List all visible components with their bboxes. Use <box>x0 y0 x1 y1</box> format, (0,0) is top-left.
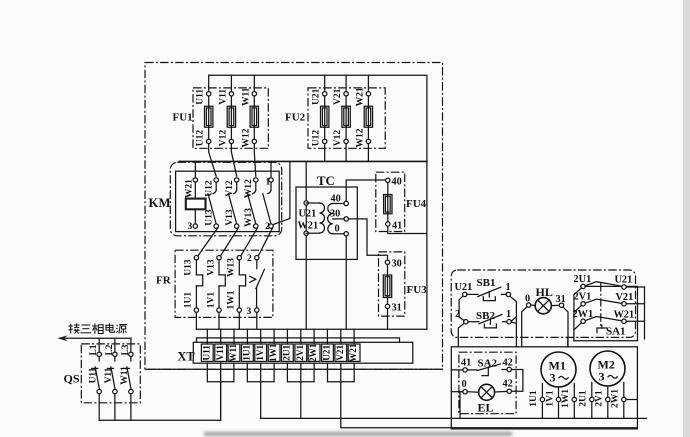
svg-text:3: 3 <box>599 370 605 384</box>
svg-text:0: 0 <box>462 379 467 390</box>
svg-text:EL: EL <box>478 401 494 415</box>
svg-text:W13: W13 <box>244 208 254 227</box>
svg-text:40: 40 <box>331 194 341 205</box>
svg-text:2V1: 2V1 <box>574 292 592 303</box>
svg-text:2U1: 2U1 <box>282 344 292 360</box>
svg-text:V13: V13 <box>206 259 216 276</box>
svg-text:SB2: SB2 <box>476 310 495 322</box>
svg-text:41: 41 <box>461 358 471 369</box>
svg-text:W12: W12 <box>355 128 365 147</box>
svg-text:2W1: 2W1 <box>573 309 594 320</box>
svg-text:U21: U21 <box>299 209 317 220</box>
svg-text:L1: L1 <box>89 344 99 355</box>
svg-text:L2: L2 <box>105 344 115 355</box>
svg-text:30: 30 <box>330 209 340 220</box>
svg-text:SB1: SB1 <box>477 277 496 289</box>
svg-text:V12: V12 <box>218 130 228 147</box>
svg-text:1U1: 1U1 <box>184 292 194 309</box>
svg-text:SA1: SA1 <box>606 326 626 338</box>
svg-text:W13: W13 <box>227 258 237 277</box>
svg-text:1W1: 1W1 <box>268 343 278 362</box>
svg-text:0: 0 <box>525 294 530 305</box>
svg-text:V11: V11 <box>218 89 228 105</box>
svg-text:1W1: 1W1 <box>561 389 571 408</box>
svg-text:U11: U11 <box>201 345 211 361</box>
svg-text:W12: W12 <box>244 179 254 198</box>
svg-text:U11: U11 <box>88 367 98 383</box>
svg-text:3: 3 <box>247 307 252 317</box>
svg-text:W21: W21 <box>355 87 365 106</box>
svg-text:FU1: FU1 <box>173 112 193 124</box>
svg-text:V21: V21 <box>335 344 345 360</box>
svg-text:TC: TC <box>317 174 335 188</box>
svg-text:U21: U21 <box>615 275 633 286</box>
svg-text:U13: U13 <box>184 259 194 276</box>
svg-text:2W1: 2W1 <box>308 343 318 362</box>
svg-text:W12: W12 <box>241 128 251 147</box>
svg-text:42: 42 <box>503 379 513 390</box>
svg-text:FU2: FU2 <box>285 112 306 124</box>
svg-text:V11: V11 <box>104 367 114 383</box>
svg-text:U12: U12 <box>312 130 322 147</box>
svg-text:31: 31 <box>392 303 402 314</box>
svg-text:W21: W21 <box>184 179 194 198</box>
svg-text:V21: V21 <box>616 292 634 303</box>
svg-text:W21: W21 <box>298 221 319 232</box>
svg-text:V13: V13 <box>225 209 235 226</box>
svg-text:42: 42 <box>503 358 513 369</box>
svg-text:V21: V21 <box>333 88 343 105</box>
svg-text:W11: W11 <box>120 366 130 385</box>
svg-text:FU3: FU3 <box>407 284 428 296</box>
svg-text:W21: W21 <box>348 343 358 362</box>
svg-text:U12: U12 <box>204 180 214 197</box>
svg-text:W11: W11 <box>228 343 238 361</box>
svg-text:2V1: 2V1 <box>595 390 605 407</box>
svg-text:U12: U12 <box>196 130 206 147</box>
svg-text:W11: W11 <box>241 87 251 106</box>
svg-text:V12: V12 <box>333 130 343 147</box>
svg-text:HL: HL <box>536 285 553 299</box>
svg-text:U21: U21 <box>455 282 473 293</box>
svg-text:1V1: 1V1 <box>206 292 216 309</box>
svg-text:U13: U13 <box>204 209 214 226</box>
svg-text:KM: KM <box>149 196 171 210</box>
svg-text:2V1: 2V1 <box>295 344 305 360</box>
svg-text:2U1: 2U1 <box>574 274 592 285</box>
svg-text:XT: XT <box>178 350 196 364</box>
svg-text:1: 1 <box>506 309 511 320</box>
svg-text:L3: L3 <box>121 344 131 355</box>
svg-text:1U1: 1U1 <box>242 344 252 360</box>
svg-text:30: 30 <box>392 259 402 270</box>
svg-text:1V1: 1V1 <box>255 344 265 360</box>
svg-text:3: 3 <box>550 371 556 385</box>
svg-text:2U1: 2U1 <box>579 390 589 407</box>
svg-text:V11: V11 <box>215 345 225 361</box>
svg-text:QS: QS <box>64 372 80 386</box>
svg-text:FU4: FU4 <box>406 198 427 210</box>
svg-text:U21: U21 <box>312 88 322 105</box>
svg-text:1V1: 1V1 <box>545 390 555 407</box>
svg-text:3: 3 <box>188 222 193 232</box>
svg-text:41: 41 <box>392 221 402 232</box>
svg-text:1: 1 <box>506 282 511 293</box>
svg-text:0: 0 <box>335 224 340 235</box>
svg-text:1U1: 1U1 <box>529 390 539 407</box>
svg-text:U21: U21 <box>322 344 332 360</box>
svg-text:FR: FR <box>156 275 172 287</box>
svg-text:2W1: 2W1 <box>611 389 621 408</box>
svg-text:31: 31 <box>556 294 566 305</box>
svg-text:1W1: 1W1 <box>227 290 237 309</box>
svg-text:2: 2 <box>247 254 252 264</box>
svg-text:SA2: SA2 <box>478 358 498 370</box>
svg-text:U11: U11 <box>196 89 206 105</box>
svg-text:40: 40 <box>392 177 402 188</box>
svg-text:W21: W21 <box>614 310 635 321</box>
svg-text:V12: V12 <box>225 180 235 197</box>
